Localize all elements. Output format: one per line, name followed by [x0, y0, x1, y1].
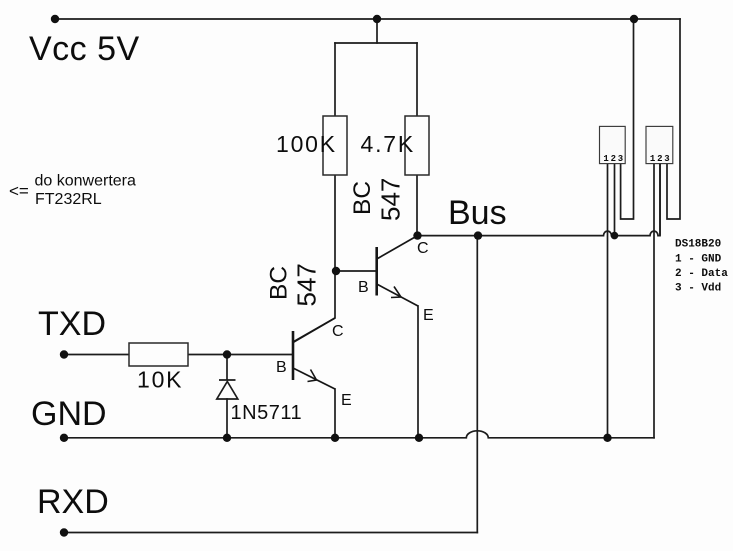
svg-text:10K: 10K: [137, 367, 183, 393]
svg-text:do konwertera: do konwertera: [35, 173, 136, 190]
svg-text:547: 547: [376, 178, 406, 221]
node Vcc center junction: [373, 15, 381, 23]
node Bus RXD junction: [474, 231, 482, 239]
resistor R2 4.7K: [361, 116, 430, 175]
wire sensor U1 pin1 GND leg: [607, 164, 609, 438]
node GND terminal: [60, 434, 68, 442]
wire 4.7K bottom to Q2 collector: [416, 175, 418, 236]
wire Bus rail with hops: [418, 164, 661, 236]
svg-text:123: 123: [603, 154, 625, 164]
wire GND rail with hop: [64, 431, 654, 438]
wire Bus to RXD vertical: [476, 236, 478, 533]
svg-text:C: C: [417, 240, 429, 257]
diode D1 1N5711: [217, 380, 238, 399]
wire Q2 emitter to GND: [417, 306, 419, 438]
wire diode top: [226, 355, 228, 380]
svg-text:100K: 100K: [276, 131, 337, 157]
svg-text:2 - Data: 2 - Data: [675, 268, 728, 280]
svg-text:C: C: [332, 323, 344, 340]
wire sensor U2 pin2 data leg: [659, 164, 661, 236]
node Q2 emitter GND junction: [415, 434, 423, 442]
node Bus sensor U1 data junction: [611, 232, 619, 240]
wire diode bottom to GND: [226, 399, 228, 438]
svg-text:1 - GND: 1 - GND: [675, 254, 722, 266]
svg-text:E: E: [341, 392, 352, 409]
wire Vcc top rail: [55, 18, 680, 20]
node diode GND junction: [223, 434, 231, 442]
wire 4.7K feed: [416, 43, 418, 116]
svg-text:RXD: RXD: [37, 483, 109, 521]
node sensor U1 GND junction: [603, 434, 611, 442]
resistor R1 100K: [276, 116, 347, 175]
node Vcc right junction: [630, 15, 638, 23]
node Q1 emitter GND junction: [331, 434, 339, 442]
svg-text:<=: <=: [9, 182, 29, 201]
label Q1 value BC 547 (rotated): [266, 263, 322, 306]
label Q2 value BC 547 (rotated): [349, 178, 406, 221]
wire Q2 base: [336, 270, 376, 272]
wire top bar to resistors: [335, 42, 417, 44]
annotation DS18B20 pinout: [675, 239, 728, 295]
svg-text:Bus: Bus: [448, 194, 507, 232]
transistor Q1 BC547: [293, 318, 335, 389]
sensor U2 DS18B20 body: [646, 126, 673, 164]
wire TXD segment: [64, 354, 129, 356]
svg-text:DS18B20: DS18B20: [675, 239, 721, 251]
wire Vdd drop sensor U2 (right): [667, 19, 680, 219]
svg-text:123: 123: [650, 154, 672, 164]
svg-text:4.7K: 4.7K: [361, 131, 416, 157]
wire 100K feed: [334, 43, 336, 116]
node diode junction: [223, 350, 231, 358]
svg-text:B: B: [358, 279, 369, 296]
wire 100K bottom to Q1 collector: [293, 175, 335, 342]
svg-text:3 - Vdd: 3 - Vdd: [675, 283, 721, 295]
transistor Q2 BC547: [377, 236, 418, 306]
svg-text:TXD: TXD: [38, 305, 106, 343]
wire sensor U1 pin2 data leg: [614, 164, 616, 236]
node Q2 base junction: [332, 267, 340, 275]
svg-text:FT232RL: FT232RL: [35, 191, 102, 208]
wire RXD rail: [64, 532, 477, 534]
wire 10K to Q1 base: [188, 354, 293, 356]
resistor R3 10K: [129, 343, 188, 393]
wire sensor U2 pin1 GND leg: [653, 164, 655, 438]
svg-text:B: B: [276, 359, 287, 376]
wire Vdd riser sensor U1 (left): [621, 19, 634, 219]
svg-text:Vcc 5V: Vcc 5V: [29, 30, 140, 68]
svg-text:BC: BC: [349, 181, 376, 215]
wire Q1 emitter to GND: [334, 389, 336, 438]
svg-text:547: 547: [292, 263, 322, 306]
svg-text:1N5711: 1N5711: [231, 402, 303, 424]
node RXD terminal: [60, 528, 68, 536]
svg-text:BC: BC: [266, 266, 293, 300]
node Q2 collector Bus junction: [413, 231, 421, 239]
node TXD terminal: [60, 350, 68, 358]
svg-text:GND: GND: [31, 395, 107, 433]
svg-text:E: E: [423, 307, 434, 324]
node Vcc left: [51, 15, 59, 23]
wire Vcc center drop: [376, 19, 378, 43]
sensor U1 DS18B20 body: [600, 126, 626, 164]
